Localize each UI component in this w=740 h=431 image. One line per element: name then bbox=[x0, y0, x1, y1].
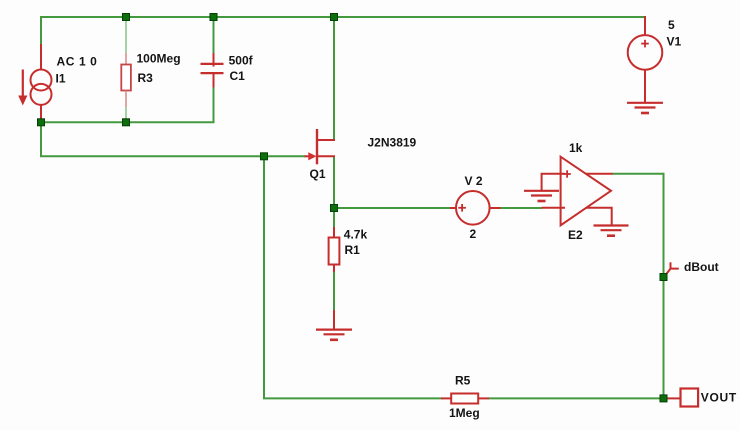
junction R3 bottom bbox=[123, 119, 130, 126]
wire left tall vertical bbox=[263, 156, 265, 398]
svg-text:V1: V1 bbox=[667, 35, 682, 49]
label V2 refdes bbox=[465, 174, 483, 188]
label Q1 type "J2N3819" bbox=[368, 136, 417, 150]
wire source node to V2 bbox=[334, 207, 451, 209]
wire R3 bottom drop bbox=[125, 107, 127, 123]
svg-text:E2: E2 bbox=[568, 228, 583, 242]
label V1 refdes bbox=[667, 35, 682, 49]
label Q1 refdes bbox=[310, 167, 326, 181]
wire C1 top drop bbox=[213, 17, 215, 54]
current source I1 bbox=[18, 44, 51, 122]
wire E2 output to right edge bbox=[612, 173, 664, 175]
svg-text:R5: R5 bbox=[455, 373, 471, 387]
svg-text:2: 2 bbox=[470, 227, 477, 241]
wire top rail bbox=[40, 16, 645, 18]
svg-text:I1: I1 bbox=[56, 71, 66, 85]
svg-text:VOUT: VOUT bbox=[701, 390, 737, 404]
label V1 value "5" bbox=[668, 18, 675, 32]
resistor R3 bbox=[121, 53, 131, 107]
vcvs E2 bbox=[542, 157, 613, 226]
ground below V1 bbox=[627, 103, 663, 113]
ground below R1 bbox=[316, 330, 352, 340]
junction I1 bottom bbox=[38, 119, 45, 126]
svg-text:AC 1 0: AC 1 0 bbox=[57, 55, 98, 69]
wire R3 top drop bbox=[125, 17, 127, 53]
svg-text:V 2: V 2 bbox=[465, 174, 483, 188]
svg-text:1k: 1k bbox=[569, 141, 583, 155]
ground at E2 plus input bbox=[524, 191, 559, 201]
label R5 value "1Meg" bbox=[449, 406, 480, 420]
JFET Q1 bbox=[305, 129, 336, 164]
wire left drop to gate rail bbox=[40, 122, 42, 156]
svg-text:Q1: Q1 bbox=[310, 167, 326, 181]
wire R1 to ground red segment bbox=[333, 310, 335, 330]
svg-text:5: 5 bbox=[668, 18, 675, 32]
voltage source V1 bbox=[628, 16, 663, 103]
wire Q1 source drop bbox=[333, 156, 335, 208]
junction R3 top bbox=[123, 14, 130, 21]
label R1 refdes bbox=[345, 243, 361, 257]
svg-text:500f: 500f bbox=[229, 53, 254, 67]
label I1 refdes bbox=[56, 71, 66, 85]
label node dBout bbox=[684, 260, 719, 274]
marker dBout bbox=[664, 262, 679, 277]
label port VOUT bbox=[701, 390, 737, 404]
label R5 refdes bbox=[455, 373, 471, 387]
label C1 value "500f" bbox=[229, 53, 254, 67]
junction VOUT node bbox=[660, 395, 667, 402]
wire R1 bottom bbox=[333, 271, 335, 311]
label R1 value "4.7k" bbox=[344, 227, 368, 241]
svg-text:1Meg: 1Meg bbox=[449, 406, 480, 420]
svg-text:R1: R1 bbox=[345, 243, 361, 257]
ground at E2 output minus bbox=[594, 226, 629, 236]
wire bottom rail right of R5 bbox=[489, 397, 665, 399]
wire gate rail bbox=[40, 155, 306, 157]
voltage source V2 bbox=[450, 191, 501, 225]
label E2 gain "1k" bbox=[569, 141, 583, 155]
port VOUT bbox=[666, 389, 698, 407]
wire Q1 drain drop bbox=[333, 17, 335, 140]
svg-text:4.7k: 4.7k bbox=[344, 227, 368, 241]
junction source node bbox=[331, 205, 338, 212]
svg-text:J2N3819: J2N3819 bbox=[368, 136, 417, 150]
wire V2 to E2 minus input bbox=[500, 207, 542, 209]
wire R1 top bbox=[333, 208, 335, 228]
label I1 value "AC 1 0" bbox=[57, 55, 98, 69]
wire I1 top drop bbox=[40, 16, 42, 45]
svg-text:100Meg: 100Meg bbox=[137, 51, 181, 65]
junction C1 top bbox=[210, 14, 217, 21]
svg-text:dBout: dBout bbox=[684, 260, 719, 274]
resistor R1 bbox=[329, 227, 340, 272]
label V2 value "2" bbox=[470, 227, 477, 241]
label R3 value "100Meg" bbox=[137, 51, 181, 65]
wire right tall vertical bbox=[663, 173, 665, 399]
capacitor C1 bbox=[201, 53, 224, 88]
resistor R5 bbox=[441, 394, 489, 404]
label C1 refdes bbox=[230, 69, 246, 83]
junction dBout bbox=[660, 274, 667, 281]
label R3 refdes bbox=[138, 71, 154, 85]
label E2 refdes bbox=[568, 228, 583, 242]
svg-text:C1: C1 bbox=[230, 69, 246, 83]
junction gate rail bbox=[261, 153, 268, 160]
wire bottom rail of input loop bbox=[41, 87, 214, 123]
wire bottom rail left of R5 bbox=[263, 397, 442, 399]
junction Q1 drain top bbox=[331, 14, 338, 21]
svg-text:R3: R3 bbox=[138, 71, 154, 85]
